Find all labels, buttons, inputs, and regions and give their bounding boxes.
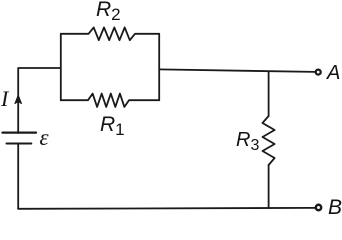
terminal B (open circle) [316, 205, 321, 210]
terminal A (open circle) [316, 70, 321, 75]
svg-text:R1: R1 [100, 113, 125, 139]
svg-text:R2: R2 [96, 0, 121, 24]
wire: bottom rail to terminal B [18, 207, 314, 210]
wire: box output to terminal A [159, 69, 314, 72]
battery top (long) plate [3, 131, 37, 133]
svg-text:R3: R3 [236, 129, 259, 154]
wire: parallel-box left vertical [60, 34, 62, 101]
node: junction of R3 branch with top wire [268, 71, 270, 116]
svg-text:I: I [0, 86, 10, 111]
resistor R2 (top branch zigzag) [61, 27, 159, 40]
resistor R1 (bottom branch zigzag) [61, 94, 159, 107]
current arrow I (arrowhead on left wire) [15, 95, 22, 103]
svg-text:B: B [328, 196, 342, 217]
wire: R3 bottom to bottom rail [268, 165, 270, 208]
wire: left vertical from stub corner down to battery top plate [18, 68, 61, 133]
wire: parallel-box right vertical [158, 34, 160, 101]
svg-text:A: A [326, 62, 340, 84]
battery bottom (short) plate [7, 143, 32, 145]
svg-text:ε: ε [40, 125, 50, 150]
wire: left vertical from battery bottom plate to bottom rail [17, 143, 19, 208]
resistor R3 (vertical zigzag) [263, 116, 275, 165]
